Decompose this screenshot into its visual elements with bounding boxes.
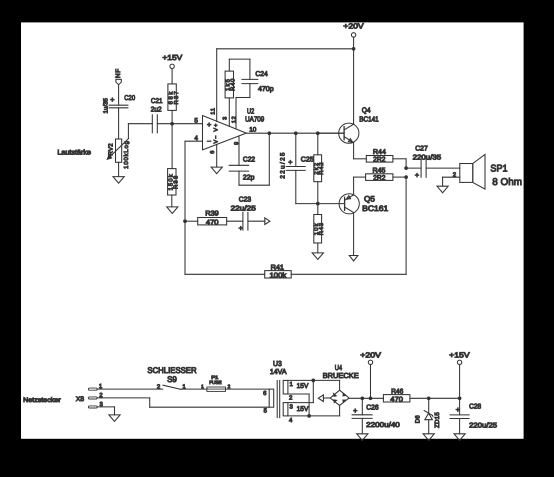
svg-text:RV2: RV2 xyxy=(107,143,114,156)
svg-text:3: 3 xyxy=(222,117,228,120)
wire node A to R38 xyxy=(171,124,173,169)
wire Q4 emitter to R44 xyxy=(354,143,367,159)
wire U3 pin2 to bottom rail xyxy=(288,394,309,416)
speaker SP1 8 Ohm xyxy=(460,154,522,189)
wire U3 pin4 to bridge AC2 xyxy=(288,415,340,417)
junction +20V rail xyxy=(352,47,356,51)
supply +20V (bottom) xyxy=(360,350,381,398)
wire op-amp pin 6 to ground xyxy=(216,144,218,167)
resistor R37 68k xyxy=(168,84,180,111)
junction output/R42 xyxy=(316,131,320,135)
resistor R41 100k xyxy=(265,264,292,279)
svg-text:2R2: 2R2 xyxy=(373,175,386,182)
svg-text:R41: R41 xyxy=(271,264,285,271)
op-amp U2 UA709 xyxy=(203,106,265,150)
svg-text:10: 10 xyxy=(249,127,257,134)
svg-text:Lautstärke: Lautstärke xyxy=(57,148,91,156)
svg-text:1u/35: 1u/35 xyxy=(102,97,109,113)
ground below R43 xyxy=(312,253,323,260)
wire op-amp output line xyxy=(246,132,344,134)
ground below speaker xyxy=(437,186,448,193)
junction pin1/pin3 parallel xyxy=(311,379,315,383)
ground below X8 pin3 xyxy=(109,415,120,422)
svg-text:6: 6 xyxy=(210,151,216,154)
ground below R38 xyxy=(167,207,178,214)
capacitor C27 220u/35 (polarized) xyxy=(406,145,441,179)
transistor Q4 BC141 (NPN) xyxy=(339,105,379,143)
transformer U3 14VA xyxy=(269,359,288,417)
svg-text:BRUECKE: BRUECKE xyxy=(323,371,359,380)
capacitor C21 2u2 xyxy=(151,98,163,133)
svg-text:2u2: 2u2 xyxy=(151,106,162,113)
arrow bridge minus (to 0V) xyxy=(318,395,330,402)
wire switch to fuse xyxy=(181,388,207,390)
junction C26 xyxy=(360,396,364,400)
wire node A to op-amp pin 5 xyxy=(172,123,202,125)
svg-text:R38: R38 xyxy=(172,175,179,190)
wire C22 to output node xyxy=(239,133,269,185)
svg-text:22p: 22p xyxy=(243,175,255,182)
svg-text:+: + xyxy=(207,120,211,129)
wire X8 pin1 to switch xyxy=(97,388,163,390)
wire C27 to speaker xyxy=(426,167,460,169)
svg-text:SP1: SP1 xyxy=(490,164,507,175)
capacitor C22 22p xyxy=(229,157,255,182)
ground below op-amp xyxy=(211,167,222,174)
wire C21 to node A xyxy=(157,123,172,125)
wire bridge plus to +20V rail xyxy=(349,397,383,399)
svg-text:+20V: +20V xyxy=(360,350,381,359)
transistor Q5 BC161 (PNP) xyxy=(339,194,388,214)
junction pin2/pin4 parallel xyxy=(307,414,311,418)
svg-text:2200u/40: 2200u/40 xyxy=(366,421,400,429)
capacitor C26 2200u/40 (polarized) xyxy=(352,398,400,434)
wire RV2 wiper to C21 xyxy=(128,124,152,139)
junction +20V supply xyxy=(369,396,373,400)
switch S9 SCHLIESSER xyxy=(147,366,196,390)
svg-text:2R2: 2R2 xyxy=(373,157,386,164)
supply +15V (bottom) xyxy=(449,350,469,398)
ground below D6 xyxy=(423,434,434,441)
svg-text:D6: D6 xyxy=(414,415,421,423)
svg-text:+20V: +20V xyxy=(343,21,363,30)
wire R38 to ground xyxy=(171,195,173,207)
svg-text:+15V: +15V xyxy=(449,350,469,359)
junction zener D6 xyxy=(427,396,431,400)
svg-text:C26: C26 xyxy=(366,405,379,412)
svg-text:NF: NF xyxy=(115,68,122,78)
ground below RV2 xyxy=(113,177,124,184)
svg-text:22u/25: 22u/25 xyxy=(279,151,286,178)
wire R46 to +15V rail xyxy=(410,397,460,399)
svg-text:C23: C23 xyxy=(239,196,252,203)
resistor R39 470 xyxy=(185,210,227,226)
svg-text:11: 11 xyxy=(210,107,216,115)
svg-text:FUSE: FUSE xyxy=(209,380,221,386)
potentiometer RV2 100kLog xyxy=(107,139,129,169)
resistor R46 470 xyxy=(383,388,410,403)
svg-text:R39: R39 xyxy=(205,210,219,217)
wire +20V to Q4 collector xyxy=(353,49,355,124)
svg-text:S9: S9 xyxy=(167,375,177,384)
resistor R38 150k xyxy=(167,169,179,195)
wire op-amp pin 11 to +20V rail xyxy=(216,49,218,122)
svg-text:+: + xyxy=(353,406,357,415)
svg-text:+: + xyxy=(288,157,292,166)
svg-text:1: 1 xyxy=(201,384,204,390)
svg-text:R40: R40 xyxy=(230,78,237,91)
wire feedback bottom xyxy=(185,221,265,274)
bridge rectifier U4 BRUECKE xyxy=(323,363,359,416)
wire Q4 base xyxy=(318,132,344,134)
svg-text:ZD15: ZD15 xyxy=(434,412,441,428)
wire R40 top loop xyxy=(229,59,250,79)
svg-text:15V: 15V xyxy=(297,406,309,413)
svg-text:22u/25: 22u/25 xyxy=(231,205,256,213)
capacitor C24 470p xyxy=(242,71,274,93)
junction speaker node / C27 xyxy=(404,166,408,170)
wire U3 pin1 to bridge AC1 xyxy=(288,379,340,381)
svg-text:12: 12 xyxy=(232,116,238,124)
wire op-amp pin 9 to C22 xyxy=(238,136,240,165)
svg-text:R45: R45 xyxy=(373,167,386,174)
svg-text:R46: R46 xyxy=(391,388,403,395)
svg-text:100k: 100k xyxy=(270,271,287,279)
capacitor C23 22u/25 (polarized) xyxy=(227,196,256,232)
svg-text:C24: C24 xyxy=(255,71,268,78)
svg-text:R42: R42 xyxy=(318,162,325,175)
svg-text:V− V+: V− V+ xyxy=(214,123,220,144)
svg-text:C22: C22 xyxy=(243,157,255,164)
wire RV2 to ground xyxy=(118,162,120,176)
resistor R40 1k5 xyxy=(225,71,237,98)
svg-text:220u/35: 220u/35 xyxy=(413,153,442,161)
resistor R45 2R2 xyxy=(366,167,407,182)
wire pin 3 to R40 xyxy=(228,98,230,126)
wire R41 to speaker node xyxy=(291,177,406,274)
wire R44 to speaker node xyxy=(393,159,406,168)
svg-text:Q5: Q5 xyxy=(364,195,376,204)
svg-text:C27: C27 xyxy=(415,145,428,152)
svg-text:+: + xyxy=(110,95,114,104)
svg-text:15V: 15V xyxy=(297,383,309,390)
svg-text:R43: R43 xyxy=(318,222,325,235)
wire Q5 collector to negative rail arrow xyxy=(353,213,355,256)
wire fuse to transformer xyxy=(226,388,270,390)
node A junction (C21/R37/R38/pin5) xyxy=(170,122,174,126)
resistor R43 10k xyxy=(313,204,325,253)
ground below C26 xyxy=(357,434,368,441)
svg-text:X8: X8 xyxy=(76,396,85,403)
svg-text:14VA: 14VA xyxy=(270,367,287,376)
wire R45 to Q5 emitter xyxy=(354,177,366,194)
svg-text:220u/25: 220u/25 xyxy=(469,422,497,430)
wire X8 pin2 to transformer xyxy=(97,398,269,407)
svg-text:C21: C21 xyxy=(151,98,163,105)
resistor R42 2k2 xyxy=(313,133,325,203)
wire speaker to ground xyxy=(443,177,460,186)
svg-text:5: 5 xyxy=(194,117,198,124)
svg-text:+: + xyxy=(415,171,419,180)
svg-text:SCHLIESSER: SCHLIESSER xyxy=(147,366,196,375)
top rail wire to +20V xyxy=(217,48,354,50)
svg-text:Q4: Q4 xyxy=(362,105,371,114)
junction speaker node / R45 xyxy=(404,175,408,179)
capacitor C20 1u/35 (polarized) xyxy=(102,95,135,113)
connector X8 xyxy=(76,388,97,408)
junction R42/R43/Q5 base xyxy=(316,202,320,206)
junction output/C22 xyxy=(267,131,271,135)
svg-text:470: 470 xyxy=(206,219,219,226)
zener diode D6 ZD15 xyxy=(414,398,441,434)
svg-text:+: + xyxy=(456,405,460,414)
arrow Q5 collector (to 0V) xyxy=(349,256,358,262)
supply +15V (top) xyxy=(162,53,182,84)
resistor R44 2R2 xyxy=(366,149,393,164)
svg-text:BC141: BC141 xyxy=(359,114,378,123)
svg-text:470: 470 xyxy=(390,396,403,403)
junction C28/+15V xyxy=(458,396,462,400)
wire C20 to RV2 xyxy=(118,108,120,139)
capacitor C25 22u/25 (polarized) xyxy=(279,133,317,203)
svg-text:100kLog: 100kLog xyxy=(123,140,130,169)
ground below C28 xyxy=(454,434,465,441)
svg-text:UA709: UA709 xyxy=(245,115,264,124)
wire R37 to node A xyxy=(171,110,173,123)
svg-text:+15V: +15V xyxy=(162,53,182,62)
junction pin4/R39/feedback xyxy=(183,219,187,223)
svg-text:R44: R44 xyxy=(373,149,386,156)
svg-text:470p: 470p xyxy=(258,86,274,93)
wire Q5 base xyxy=(318,203,345,205)
svg-text:C20: C20 xyxy=(124,95,135,102)
svg-text:Netzstecker: Netzstecker xyxy=(23,397,61,404)
svg-text:8 Ohm: 8 Ohm xyxy=(492,177,522,188)
wire U3 pin3 to junction xyxy=(288,380,313,402)
svg-text:C28: C28 xyxy=(469,403,481,410)
svg-text:C25: C25 xyxy=(301,157,314,164)
fuse F1 xyxy=(207,375,226,391)
supply +20V (top) xyxy=(343,21,363,48)
arrow output to tone stage xyxy=(248,218,270,225)
junction output/C25 xyxy=(294,131,298,135)
svg-text:+: + xyxy=(239,224,243,233)
connector NF xyxy=(115,68,122,84)
wire X8 pin3 to ground xyxy=(97,407,114,415)
wire pin4 node xyxy=(185,141,203,221)
capacitor C28 220u/25 (polarized) xyxy=(450,398,497,434)
svg-text:R37: R37 xyxy=(173,90,180,105)
svg-text:BC161: BC161 xyxy=(362,204,388,213)
wire C24 to pin 12 xyxy=(236,84,250,129)
wire NF to C20 xyxy=(118,85,120,106)
